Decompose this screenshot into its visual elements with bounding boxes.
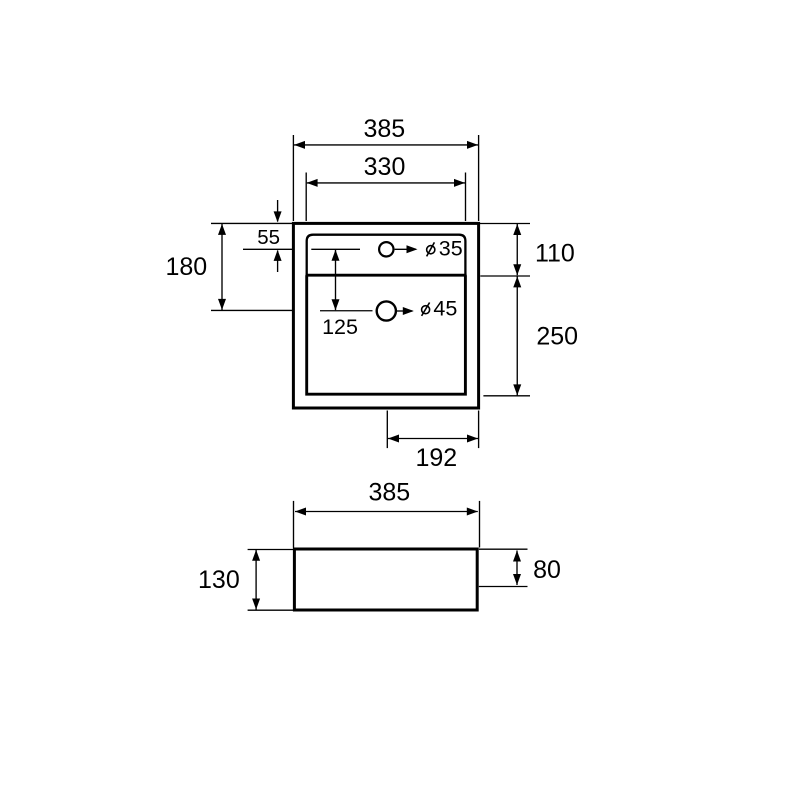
svg-text:192: 192: [415, 444, 457, 472]
svg-text:35: 35: [439, 236, 463, 260]
svg-text:110: 110: [535, 240, 575, 268]
svg-text:385: 385: [363, 115, 405, 143]
svg-text:45: 45: [433, 296, 457, 320]
svg-text:385: 385: [368, 478, 410, 506]
svg-text:55: 55: [257, 226, 280, 249]
svg-text:80: 80: [533, 556, 561, 584]
svg-text:180: 180: [165, 253, 207, 281]
svg-text:250: 250: [536, 323, 578, 351]
svg-text:330: 330: [364, 153, 406, 181]
svg-text:130: 130: [198, 566, 240, 594]
svg-text:125: 125: [322, 315, 358, 339]
